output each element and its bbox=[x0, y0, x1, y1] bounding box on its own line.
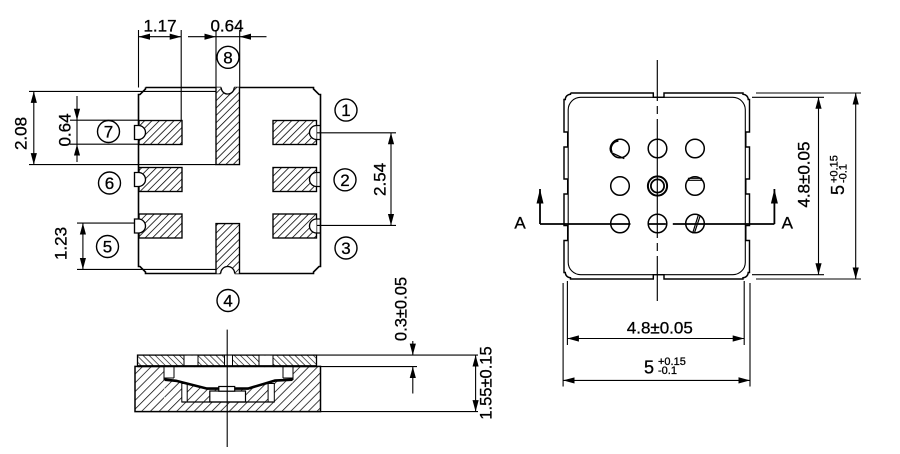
svg-text:1.55±0.15: 1.55±0.15 bbox=[478, 346, 496, 419]
svg-text:4.8±0.05: 4.8±0.05 bbox=[795, 142, 814, 208]
svg-text:0.64: 0.64 bbox=[210, 17, 243, 36]
svg-text:-0.1: -0.1 bbox=[838, 164, 850, 183]
svg-text:4: 4 bbox=[223, 292, 232, 311]
svg-text:7: 7 bbox=[104, 123, 113, 142]
svg-text:4.8±0.05: 4.8±0.05 bbox=[627, 319, 693, 338]
svg-text:2: 2 bbox=[340, 171, 349, 190]
svg-text:5: 5 bbox=[828, 185, 848, 195]
svg-text:8: 8 bbox=[223, 48, 232, 67]
svg-text:-0.1: -0.1 bbox=[658, 365, 677, 377]
svg-text:A: A bbox=[514, 214, 526, 233]
svg-text:6: 6 bbox=[105, 174, 114, 193]
svg-text:0.64: 0.64 bbox=[56, 113, 75, 146]
svg-text:1.23: 1.23 bbox=[52, 227, 71, 260]
svg-text:1: 1 bbox=[341, 101, 350, 120]
svg-text:5: 5 bbox=[644, 358, 654, 378]
svg-text:3: 3 bbox=[341, 239, 350, 258]
svg-text:0.3±0.05: 0.3±0.05 bbox=[393, 277, 411, 341]
svg-text:5: 5 bbox=[103, 238, 112, 257]
svg-text:A: A bbox=[782, 214, 794, 233]
svg-text:2.54: 2.54 bbox=[371, 163, 390, 196]
svg-text:1.17: 1.17 bbox=[143, 17, 176, 36]
svg-text:2.08: 2.08 bbox=[12, 117, 31, 150]
